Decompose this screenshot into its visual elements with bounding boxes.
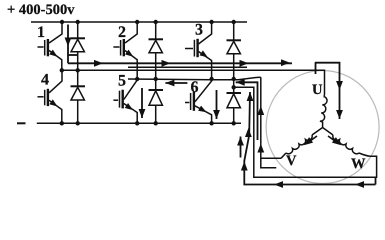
svg-text:3: 3 xyxy=(195,22,203,39)
svg-text:5: 5 xyxy=(118,72,126,89)
svg-text:+ 400-500v: + 400-500v xyxy=(7,2,75,18)
svg-text:2: 2 xyxy=(118,24,126,41)
svg-text:W: W xyxy=(351,156,366,172)
svg-text:V: V xyxy=(286,153,297,169)
svg-text:1: 1 xyxy=(37,24,45,41)
svg-text:4: 4 xyxy=(41,72,49,89)
svg-text:U: U xyxy=(312,82,323,98)
svg-text:6: 6 xyxy=(191,79,199,96)
